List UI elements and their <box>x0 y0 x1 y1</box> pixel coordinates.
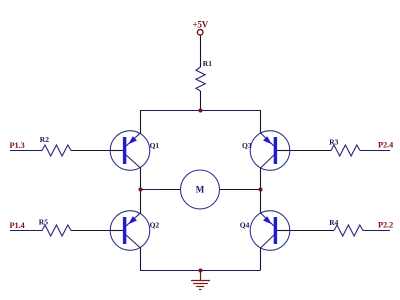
svg-text:R4: R4 <box>329 218 338 227</box>
svg-text:M: M <box>196 185 205 195</box>
svg-text:R5: R5 <box>39 218 48 227</box>
svg-text:P2.2: P2.2 <box>378 220 393 230</box>
svg-text:Q3: Q3 <box>242 141 252 150</box>
svg-text:R2: R2 <box>40 135 49 144</box>
svg-text:P2.4: P2.4 <box>378 140 394 150</box>
svg-text:P1.4: P1.4 <box>10 220 26 230</box>
svg-text:Q2: Q2 <box>150 220 160 229</box>
svg-text:R1: R1 <box>203 59 212 68</box>
svg-text:P1.3: P1.3 <box>10 140 25 150</box>
svg-text:+5V: +5V <box>193 20 209 30</box>
svg-text:Q1: Q1 <box>150 141 160 150</box>
svg-text:Q4: Q4 <box>240 220 250 229</box>
svg-text:R3: R3 <box>329 138 338 147</box>
